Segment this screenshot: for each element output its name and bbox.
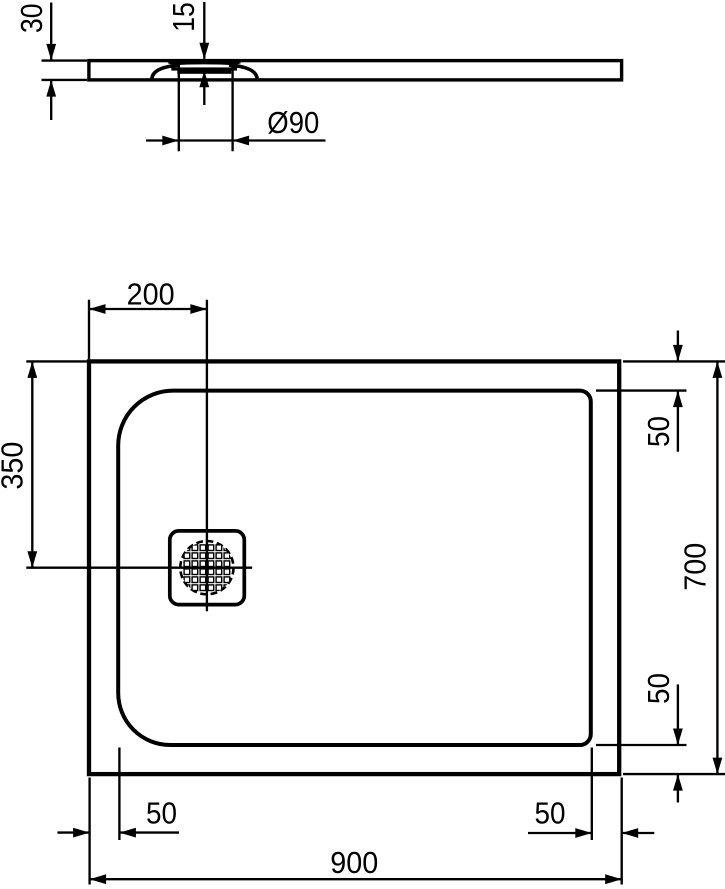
dimension 50 bottom-right-side (rim width) <box>596 673 687 803</box>
plan view outer rectangle <box>89 361 619 774</box>
svg-text:Ø90: Ø90 <box>267 105 319 140</box>
dimension 50 bottom-right (rim width) <box>528 748 654 841</box>
drain centerline horizontal <box>26 567 252 569</box>
drain dashed circle, plan view <box>180 541 233 594</box>
svg-text:15: 15 <box>166 2 201 32</box>
dimension 700 (overall depth) <box>623 361 725 774</box>
dimension 50 bottom-left (rim width) <box>57 748 179 841</box>
svg-text:30: 30 <box>14 4 49 34</box>
dimension 50 top-right (rim width) <box>596 331 725 452</box>
drain cover square, plan view <box>170 531 245 605</box>
svg-text:50: 50 <box>535 795 566 830</box>
dimension 350 (drain offset from top) <box>0 361 87 568</box>
svg-text:50: 50 <box>641 673 676 704</box>
dimension 15 (drain recess depth, side view) <box>166 2 209 105</box>
dimension 30 (tray height, side view) <box>14 3 87 121</box>
dimension Ø90 (drain diameter, side view) <box>146 66 326 151</box>
plan view inner basin with rounded corners <box>118 391 591 745</box>
svg-text:900: 900 <box>330 845 378 880</box>
svg-text:700: 700 <box>678 543 713 591</box>
drain grate grid <box>184 545 230 591</box>
svg-text:350: 350 <box>0 442 29 490</box>
drain centerline vertical <box>206 300 208 612</box>
svg-text:50: 50 <box>641 416 676 447</box>
dimension 900 (overall width) <box>90 778 622 885</box>
drain section in side view <box>152 60 257 78</box>
dimension 200 (drain offset from left) <box>89 276 207 359</box>
svg-text:200: 200 <box>127 276 175 311</box>
svg-text:50: 50 <box>146 796 177 831</box>
side view tray profile <box>89 61 622 80</box>
